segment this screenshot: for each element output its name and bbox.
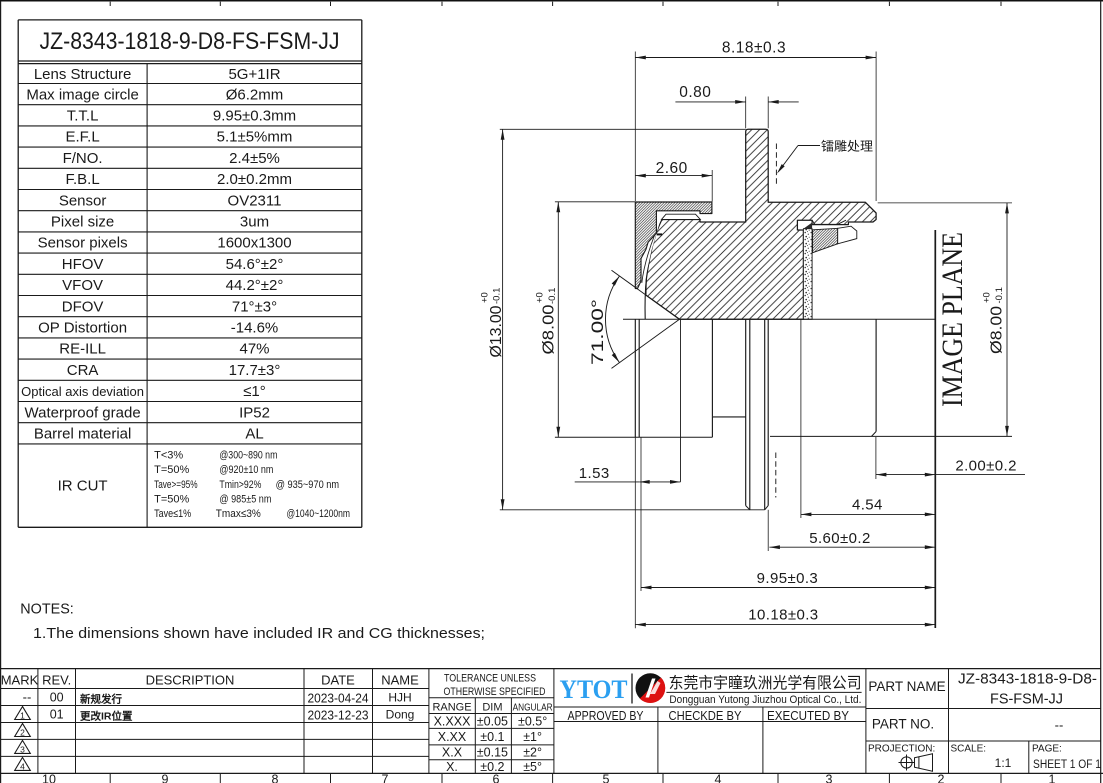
svg-text:5: 5 xyxy=(603,773,610,783)
svg-text:Ø6.2mm: Ø6.2mm xyxy=(226,86,284,103)
svg-text:CRA: CRA xyxy=(67,362,99,379)
svg-text:@300~890 nm: @300~890 nm xyxy=(219,450,277,462)
svg-text:±0.2: ±0.2 xyxy=(480,760,504,774)
svg-text:1600x1300: 1600x1300 xyxy=(217,235,291,252)
svg-text:9.95±0.3mm: 9.95±0.3mm xyxy=(213,108,296,125)
svg-text:X.XX: X.XX xyxy=(438,730,467,744)
svg-text:SCALE:: SCALE: xyxy=(951,744,987,755)
svg-text:9.95±0.3: 9.95±0.3 xyxy=(757,570,818,587)
svg-text:Ø8.00: Ø8.00 xyxy=(541,304,558,354)
svg-text:3: 3 xyxy=(20,745,25,755)
svg-text:±0.15: ±0.15 xyxy=(477,746,508,760)
svg-text:PART NAME: PART NAME xyxy=(868,679,945,694)
svg-text:-0.1: -0.1 xyxy=(547,288,558,304)
svg-text:10.18±0.3: 10.18±0.3 xyxy=(748,606,818,623)
svg-text:Dongguan Yutong Jiuzhou Optica: Dongguan Yutong Jiuzhou Optical Co., Ltd… xyxy=(669,694,861,706)
svg-text:±0.5°: ±0.5° xyxy=(518,715,547,729)
svg-text:Sensor pixels: Sensor pixels xyxy=(38,235,128,252)
svg-text:OP Distortion: OP Distortion xyxy=(38,320,127,337)
svg-text:2023-04-24: 2023-04-24 xyxy=(308,690,369,705)
svg-text:F.B.L: F.B.L xyxy=(66,171,100,188)
svg-text:+0: +0 xyxy=(982,292,993,303)
svg-text:APPROVED BY: APPROVED BY xyxy=(568,708,644,723)
svg-text:Pixel size: Pixel size xyxy=(51,214,114,231)
svg-text:PAGE:: PAGE: xyxy=(1032,744,1062,755)
svg-text:DESCRIPTION: DESCRIPTION xyxy=(146,672,235,687)
svg-text:5.1±5%mm: 5.1±5%mm xyxy=(217,129,293,146)
svg-text:T.T.L: T.T.L xyxy=(67,108,99,125)
svg-text:Optical axis deviation: Optical axis deviation xyxy=(21,384,144,399)
svg-text:2: 2 xyxy=(20,728,25,738)
svg-text:Tmax≤3%: Tmax≤3% xyxy=(216,508,261,520)
svg-text:2.00±0.2: 2.00±0.2 xyxy=(955,457,1016,474)
svg-text:8: 8 xyxy=(272,773,279,783)
svg-text:TOLERANCE UNLESS: TOLERANCE UNLESS xyxy=(444,672,536,684)
svg-text:Max image circle: Max image circle xyxy=(26,86,139,103)
svg-text:6: 6 xyxy=(493,773,500,783)
svg-text:EXECUTED BY: EXECUTED BY xyxy=(767,708,849,723)
svg-text:--: -- xyxy=(23,690,32,705)
svg-text:NOTES:: NOTES: xyxy=(20,601,74,617)
svg-text:1:1: 1:1 xyxy=(995,756,1012,770)
svg-text:9: 9 xyxy=(162,773,169,783)
svg-text:Waterproof grade: Waterproof grade xyxy=(25,404,141,421)
svg-text:71.00°: 71.00° xyxy=(589,299,607,365)
svg-text:5G+1IR: 5G+1IR xyxy=(228,66,280,83)
svg-text:01: 01 xyxy=(50,707,64,721)
svg-text:--: -- xyxy=(1055,718,1064,733)
svg-text:RE-ILL: RE-ILL xyxy=(59,341,106,358)
svg-text:HJH: HJH xyxy=(388,690,411,704)
svg-text:IMAGE PLANE: IMAGE PLANE xyxy=(936,232,969,407)
svg-text:SHEET 1 OF 1: SHEET 1 OF 1 xyxy=(1033,757,1101,771)
svg-text:JZ-8343-1818-9-D8-: JZ-8343-1818-9-D8- xyxy=(958,670,1097,687)
svg-text:MARK: MARK xyxy=(1,672,39,687)
svg-text:CHECKDE BY: CHECKDE BY xyxy=(669,708,742,723)
svg-text:更改IR位置: 更改IR位置 xyxy=(80,709,133,722)
svg-text:JZ-8343-1818-9-D8-FS-FSM-JJ: JZ-8343-1818-9-D8-FS-FSM-JJ xyxy=(40,28,340,55)
svg-text:T<3%: T<3% xyxy=(154,450,183,462)
svg-text:OTHERWISE SPECIFIED: OTHERWISE SPECIFIED xyxy=(444,686,546,698)
svg-text:RANGE: RANGE xyxy=(432,701,471,713)
svg-text:PROJECTION:: PROJECTION: xyxy=(868,744,935,755)
svg-text:8.18±0.3: 8.18±0.3 xyxy=(722,39,786,56)
svg-text:5.60±0.2: 5.60±0.2 xyxy=(809,530,870,547)
svg-text:OV2311: OV2311 xyxy=(228,192,282,209)
svg-text:T=50%: T=50% xyxy=(154,493,189,505)
svg-text:47%: 47% xyxy=(239,341,269,358)
svg-text:@ 985±5 nm: @ 985±5 nm xyxy=(219,493,271,505)
svg-text:Ø8.00: Ø8.00 xyxy=(989,306,1006,354)
svg-text:DFOV: DFOV xyxy=(62,298,104,315)
svg-text:IR CUT: IR CUT xyxy=(58,478,108,495)
svg-text:Sensor: Sensor xyxy=(59,192,107,209)
svg-text:X.: X. xyxy=(446,760,458,774)
svg-text:2.0±0.2mm: 2.0±0.2mm xyxy=(217,171,292,188)
svg-text:Tmin>92%: Tmin>92% xyxy=(219,479,261,491)
svg-text:Barrel material: Barrel material xyxy=(34,426,132,443)
svg-text:4: 4 xyxy=(20,762,25,772)
svg-text:3: 3 xyxy=(826,773,833,783)
svg-text:镭雕处理: 镭雕处理 xyxy=(821,139,873,154)
svg-text:新规发行: 新规发行 xyxy=(80,692,122,705)
svg-text:@920±10 nm: @920±10 nm xyxy=(219,464,273,476)
svg-text:-0.1: -0.1 xyxy=(492,288,503,304)
svg-text:NAME: NAME xyxy=(381,672,419,687)
svg-text:+0: +0 xyxy=(480,292,491,303)
svg-text:54.6°±2°: 54.6°±2° xyxy=(226,256,284,273)
svg-text:HFOV: HFOV xyxy=(62,256,104,273)
svg-text:T=50%: T=50% xyxy=(154,464,189,476)
svg-text:2: 2 xyxy=(938,773,945,783)
svg-text:≤1°: ≤1° xyxy=(243,383,266,400)
svg-text:7: 7 xyxy=(382,773,389,783)
svg-text:±0.05: ±0.05 xyxy=(477,715,508,729)
svg-text:71°±3°: 71°±3° xyxy=(232,298,277,315)
svg-text:1: 1 xyxy=(1049,773,1056,783)
svg-text:2.60: 2.60 xyxy=(656,160,688,177)
svg-text:3um: 3um xyxy=(240,214,269,231)
svg-text:2023-12-23: 2023-12-23 xyxy=(308,707,369,722)
svg-text:+0: +0 xyxy=(535,292,546,303)
svg-text:@ 935~970 nm: @ 935~970 nm xyxy=(276,479,340,491)
svg-text:00: 00 xyxy=(50,691,64,705)
svg-text:F/NO.: F/NO. xyxy=(63,150,103,167)
svg-text:±2°: ±2° xyxy=(523,746,542,760)
svg-text:2.4±5%: 2.4±5% xyxy=(229,150,280,167)
svg-text:PART NO.: PART NO. xyxy=(872,717,934,732)
svg-text:±0.1: ±0.1 xyxy=(480,730,504,744)
svg-text:东莞市宇瞳玖洲光学有限公司: 东莞市宇瞳玖洲光学有限公司 xyxy=(669,674,862,692)
svg-text:IP52: IP52 xyxy=(239,404,270,421)
svg-text:±5°: ±5° xyxy=(523,760,542,774)
svg-text:0.80: 0.80 xyxy=(679,84,711,101)
svg-text:Dong: Dong xyxy=(386,707,415,721)
svg-text:DIM: DIM xyxy=(482,701,502,713)
svg-text:REV.: REV. xyxy=(42,672,71,687)
svg-text:AL: AL xyxy=(245,426,263,443)
svg-text:44.2°±2°: 44.2°±2° xyxy=(226,277,284,294)
svg-text:DATE: DATE xyxy=(321,672,355,687)
svg-text:4: 4 xyxy=(715,773,722,783)
svg-text:Lens Structure: Lens Structure xyxy=(34,66,132,83)
svg-text:1.The dimensions shown have in: 1.The dimensions shown have included IR … xyxy=(33,626,485,642)
svg-text:VFOV: VFOV xyxy=(62,277,103,294)
svg-text:@1040~1200nm: @1040~1200nm xyxy=(287,508,351,520)
svg-text:Tave≤1%: Tave≤1% xyxy=(154,508,191,520)
svg-text:X.X: X.X xyxy=(442,746,463,760)
svg-text:Ø13.00: Ø13.00 xyxy=(488,305,505,357)
svg-text:FS-FSM-JJ: FS-FSM-JJ xyxy=(990,690,1063,707)
svg-text:-14.6%: -14.6% xyxy=(231,320,279,337)
svg-text:X.XXX: X.XXX xyxy=(434,715,471,729)
svg-text:ANGULAR: ANGULAR xyxy=(513,702,553,713)
svg-text:4.54: 4.54 xyxy=(852,497,883,514)
svg-text:Tave>=95%: Tave>=95% xyxy=(154,479,198,491)
svg-text:1.53: 1.53 xyxy=(579,465,610,482)
svg-text:YTOT: YTOT xyxy=(560,675,628,704)
svg-text:-0.1: -0.1 xyxy=(994,287,1005,303)
svg-text:17.7±3°: 17.7±3° xyxy=(229,362,281,379)
svg-text:±1°: ±1° xyxy=(523,730,542,744)
svg-text:10: 10 xyxy=(42,773,56,783)
svg-text:1: 1 xyxy=(20,711,25,721)
svg-text:E.F.L: E.F.L xyxy=(66,129,100,146)
